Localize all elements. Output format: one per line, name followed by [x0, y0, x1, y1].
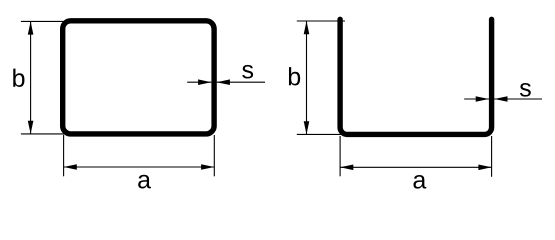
dimension b left: dimension line: [30, 21, 32, 133]
dimension s right: left leader line: [464, 98, 489, 100]
dimension a right: left extension line: [339, 136, 341, 176]
dimension a right: left arrowhead: [340, 165, 353, 171]
dimension s right: left arrowhead: [476, 96, 489, 102]
dimension a left: right extension line: [213, 135, 215, 176]
dimension b left: up arrowhead: [28, 21, 34, 34]
channel profile outline (right figure): [340, 19, 492, 134]
label s left: [242, 65, 253, 79]
label b left: [13, 69, 24, 87]
dimension b left: top extension line: [21, 20, 64, 22]
dimension a left: right arrowhead: [201, 164, 214, 170]
dimension a right: right arrowhead: [478, 165, 491, 171]
dimension b left: down arrowhead: [28, 121, 34, 134]
dimension s right: right arrowhead: [494, 96, 507, 102]
dimension a left: left arrowhead: [64, 164, 77, 170]
dimension s left: right leader line: [217, 81, 265, 83]
dimension b right: down arrowhead: [304, 121, 310, 134]
dimension b right: top extension line: [297, 20, 345, 22]
label a left: [138, 175, 151, 189]
label s right: [520, 83, 531, 97]
dimension s right: right leader line: [494, 98, 542, 100]
dimension a left: dimension line: [64, 166, 215, 168]
dimension a left: left extension line: [63, 135, 65, 176]
tube profile outline (left figure): [63, 21, 214, 134]
dimension a right: right extension line: [491, 136, 493, 177]
dimension a right: dimension line: [340, 166, 492, 168]
dimension b right: dimension line: [306, 21, 308, 134]
dimension b right: up arrowhead: [304, 21, 310, 34]
label b right: [289, 67, 300, 85]
dimension s left: right arrowhead: [217, 79, 230, 85]
dimension s left: left leader line: [187, 81, 211, 83]
dimension b left: bottom extension line: [21, 133, 65, 135]
dimension b right: bottom extension line: [297, 133, 342, 135]
dimension s left: left arrowhead: [198, 79, 211, 85]
label a right: [413, 175, 426, 189]
